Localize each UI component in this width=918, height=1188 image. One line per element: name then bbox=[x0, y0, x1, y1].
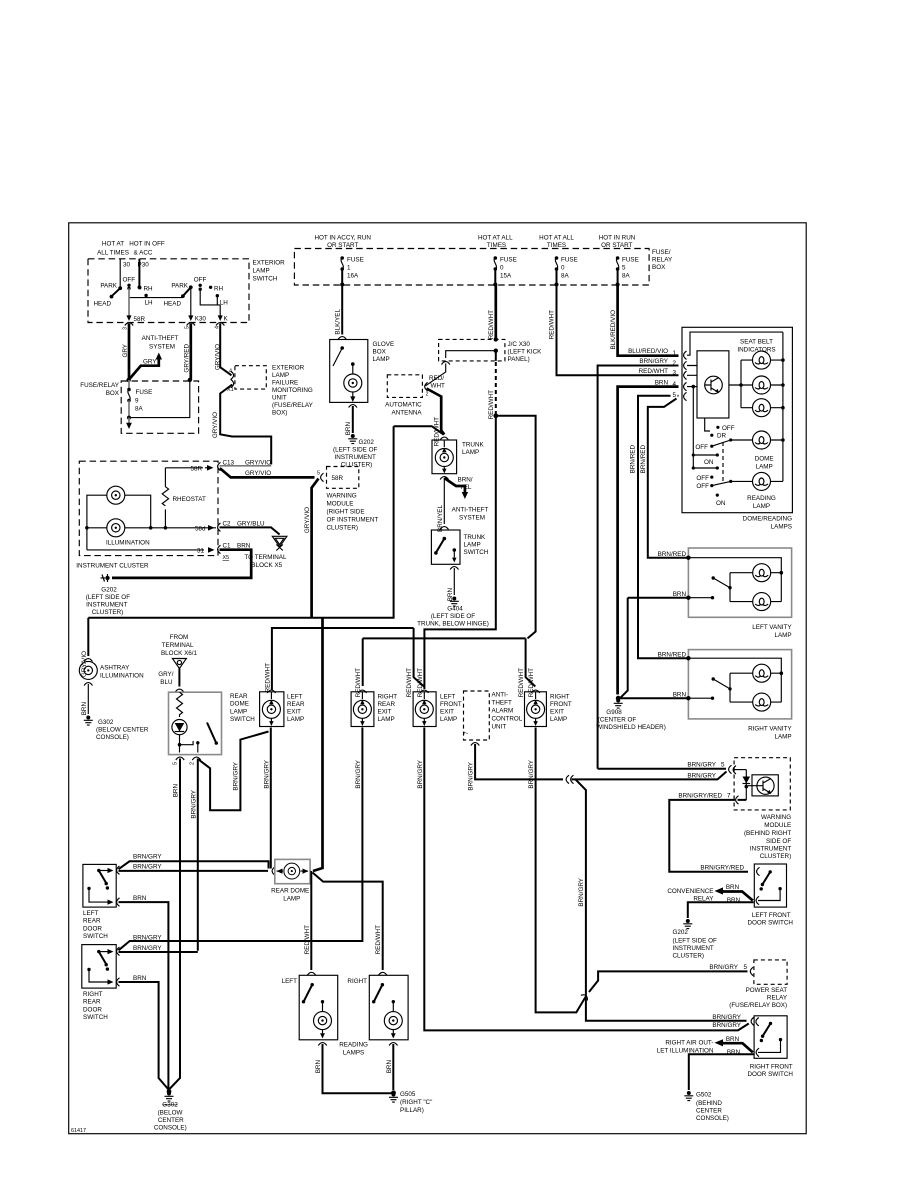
label warning module right side bbox=[327, 493, 379, 532]
svg-text:BRN/RED: BRN/RED bbox=[629, 445, 636, 474]
svg-text:BRN: BRN bbox=[345, 422, 352, 436]
wire BRN/GRY left rear door lower bbox=[119, 864, 269, 871]
svg-text:BRN/GRY: BRN/GRY bbox=[263, 759, 270, 788]
svg-text:1: 1 bbox=[673, 350, 677, 357]
svg-text:BOX: BOX bbox=[106, 390, 120, 397]
wire BRN dome switch to ground bbox=[170, 759, 181, 1090]
ground G908 bbox=[596, 696, 666, 731]
svg-text:RIGHT FRONT: RIGHT FRONT bbox=[750, 1064, 793, 1071]
svg-text:7: 7 bbox=[464, 732, 470, 735]
svg-text:LAMP: LAMP bbox=[756, 464, 773, 471]
svg-text:FUSE/: FUSE/ bbox=[652, 249, 671, 256]
wire BRN glove to ground bbox=[345, 405, 357, 436]
svg-text:BRN/RED: BRN/RED bbox=[640, 445, 647, 474]
svg-text:BLOCK X5: BLOCK X5 bbox=[251, 562, 282, 569]
svg-text:SYSTEM: SYSTEM bbox=[459, 515, 485, 522]
wire RED/WHT pin3 bbox=[549, 285, 679, 377]
svg-text:ON: ON bbox=[716, 500, 726, 507]
wire GRY/VIO C13 upper bbox=[220, 460, 272, 467]
svg-text:GRY/VIO: GRY/VIO bbox=[304, 507, 311, 533]
wire 31 to C1 bbox=[87, 543, 251, 562]
wire BRN/GRY pin2 bbox=[598, 358, 679, 769]
svg-text:RIGHT: RIGHT bbox=[550, 694, 570, 701]
svg-text:0: 0 bbox=[500, 265, 504, 272]
svg-text:OFF: OFF bbox=[696, 475, 709, 482]
wire branch to rear dome feed bbox=[313, 618, 323, 871]
svg-text:BRN: BRN bbox=[133, 975, 147, 982]
svg-text:(LEFT KICK: (LEFT KICK bbox=[508, 349, 543, 356]
svg-text:MODULE: MODULE bbox=[764, 822, 791, 829]
svg-text:FUSE: FUSE bbox=[622, 257, 639, 264]
svg-text:61417: 61417 bbox=[71, 1128, 86, 1134]
wire BRN left reading lamp bbox=[315, 1043, 392, 1094]
svg-text:RED/WHT: RED/WHT bbox=[264, 663, 271, 693]
svg-text:BRN: BRN bbox=[81, 702, 88, 716]
svg-text:ASHTRAY: ASHTRAY bbox=[100, 665, 130, 672]
svg-text:BRN: BRN bbox=[726, 1036, 740, 1043]
svg-text:8A: 8A bbox=[622, 273, 631, 280]
dome lamp L3 bbox=[753, 431, 774, 471]
svg-text:FRONT: FRONT bbox=[550, 701, 572, 708]
control module U1 bbox=[687, 332, 783, 418]
ground G202 cluster bbox=[86, 574, 130, 616]
wire BRN left vanity bbox=[628, 591, 715, 600]
svg-text:(BEHIND RIGHT: (BEHIND RIGHT bbox=[744, 830, 791, 837]
svg-text:UNIT: UNIT bbox=[272, 395, 287, 402]
svg-text:ANTI-THEFT: ANTI-THEFT bbox=[452, 507, 489, 514]
svg-text:BLK/YEL: BLK/YEL bbox=[335, 309, 342, 335]
svg-text:15A: 15A bbox=[500, 273, 512, 280]
svg-text:(RIGHT SIDE: (RIGHT SIDE bbox=[327, 509, 365, 516]
svg-text:REAR: REAR bbox=[378, 701, 396, 708]
svg-text:LEFT VANITY: LEFT VANITY bbox=[752, 624, 792, 631]
svg-text:K30: K30 bbox=[195, 316, 207, 323]
wire BRN right vanity bbox=[620, 691, 714, 700]
svg-text:RED/WHT: RED/WHT bbox=[375, 925, 382, 955]
trunk lamp switch S2 bbox=[431, 530, 460, 564]
wire GRY/VIO ashtray feed bbox=[81, 618, 89, 677]
svg-text:GRY: GRY bbox=[143, 359, 157, 366]
wire BRN/GRY right rear exit down bbox=[131, 728, 362, 942]
label seat belt indicators bbox=[737, 339, 775, 354]
svg-text:RIGHT AIR OUT-: RIGHT AIR OUT- bbox=[665, 1040, 713, 1047]
label rear dome lamp switch bbox=[230, 693, 255, 723]
svg-text:CONSOLE): CONSOLE) bbox=[154, 1125, 187, 1132]
svg-text:RELAY: RELAY bbox=[767, 995, 788, 1002]
connector chevrons at switch box bottom bbox=[125, 323, 225, 326]
fuse F4 8A bbox=[616, 256, 639, 286]
svg-text:2: 2 bbox=[426, 392, 429, 398]
label reading lamps bbox=[339, 1042, 368, 1057]
wire GRY/RED bbox=[184, 324, 191, 381]
wire BRN to convenience relay bbox=[715, 884, 753, 904]
wire feed to trunk lamp from bus bbox=[394, 426, 444, 434]
svg-text:(BEHIND: (BEHIND bbox=[696, 1100, 722, 1107]
svg-text:RED/WHT: RED/WHT bbox=[639, 368, 669, 375]
label rear dome lamp bbox=[271, 888, 309, 903]
svg-text:SIDE OF: SIDE OF bbox=[766, 838, 791, 845]
svg-text:BRN/GRY/RED: BRN/GRY/RED bbox=[700, 864, 744, 871]
svg-text:CONSOLE): CONSOLE) bbox=[696, 1115, 729, 1122]
svg-text:(RIGHT "C": (RIGHT "C" bbox=[400, 1099, 432, 1106]
wire BLK/YEL bbox=[335, 285, 347, 340]
svg-text:CENTER: CENTER bbox=[696, 1108, 722, 1115]
svg-text:REAR: REAR bbox=[83, 918, 101, 925]
svg-text:MODULE: MODULE bbox=[327, 501, 354, 508]
contact OFF dome bbox=[716, 425, 734, 432]
svg-text:WINDSHIELD HEADER): WINDSHIELD HEADER) bbox=[596, 724, 666, 731]
svg-text:LAMP: LAMP bbox=[462, 449, 479, 456]
svg-text:9: 9 bbox=[135, 398, 139, 405]
contact RH right bbox=[209, 286, 224, 293]
svg-text:INSTRUMENT: INSTRUMENT bbox=[335, 454, 376, 461]
svg-text:PILLAR): PILLAR) bbox=[400, 1107, 424, 1114]
svg-text:HOT AT ALL: HOT AT ALL bbox=[478, 235, 513, 242]
svg-text:GRY/VIO: GRY/VIO bbox=[245, 460, 271, 467]
connector C13 bbox=[218, 460, 235, 471]
svg-text:REAR: REAR bbox=[83, 999, 101, 1006]
right rear door switch S7 bbox=[82, 945, 116, 989]
svg-text:SWITCH: SWITCH bbox=[230, 716, 255, 723]
svg-text:DOOR SWITCH: DOOR SWITCH bbox=[747, 1071, 793, 1078]
svg-text:FAILURE: FAILURE bbox=[272, 380, 298, 387]
wire BRN to G202 bbox=[112, 550, 251, 578]
svg-text:5: 5 bbox=[721, 762, 725, 769]
svg-text:BLU/RED/VIO: BLU/RED/VIO bbox=[628, 348, 668, 355]
svg-text:EXTERIOR: EXTERIOR bbox=[253, 260, 286, 267]
illumination lamp 2 bbox=[107, 519, 125, 537]
wire 58d to C2 bbox=[195, 521, 265, 533]
svg-text:7: 7 bbox=[727, 793, 731, 800]
mechanical link dashed bbox=[722, 442, 724, 483]
svg-text:(FUSE/RELAY BOX): (FUSE/RELAY BOX) bbox=[729, 1002, 787, 1009]
wire BRN/GRY to right front door switch upper bbox=[712, 1014, 741, 1029]
svg-text:3: 3 bbox=[673, 370, 677, 377]
svg-text:TERMINAL: TERMINAL bbox=[162, 642, 194, 649]
wire labels RED/WHT verticals bbox=[264, 663, 535, 698]
wire BRN/GRY anti-theft to connector bbox=[468, 744, 564, 791]
wire BRN/GRY left front exit down bbox=[417, 728, 749, 1031]
right front door switch S4 bbox=[751, 1016, 787, 1059]
wire BRN/RED pin5a bbox=[629, 391, 678, 656]
svg-text:LAMP: LAMP bbox=[550, 716, 567, 723]
svg-text:BRN/GRY: BRN/GRY bbox=[190, 789, 197, 818]
svg-text:DOME: DOME bbox=[755, 456, 774, 463]
svg-text:THEFT: THEFT bbox=[492, 700, 512, 707]
wire BLU/RED/VIO pin1 feed bbox=[610, 285, 679, 357]
svg-text:BRN/GRY: BRN/GRY bbox=[233, 761, 240, 790]
wire P30 bbox=[138, 259, 150, 289]
left vanity lamps bbox=[730, 564, 783, 611]
wire BRN/GRY to warning module pin5 bbox=[576, 762, 747, 780]
label right vanity lamp bbox=[748, 726, 792, 741]
ground G202 glove bbox=[333, 434, 377, 469]
seat belt lamp 1 bbox=[753, 351, 771, 369]
svg-text:RIGHT: RIGHT bbox=[83, 991, 103, 998]
svg-text:5: 5 bbox=[173, 762, 179, 765]
ground G302 center console bbox=[154, 1089, 187, 1131]
svg-text:1: 1 bbox=[347, 265, 351, 272]
wire GRY/VIO C13 lower to warning module bbox=[220, 468, 315, 477]
seat belt lamp 2 bbox=[753, 376, 771, 394]
svg-text:RED/WHT: RED/WHT bbox=[304, 925, 311, 955]
svg-text:58d: 58d bbox=[195, 525, 206, 532]
wire BRN left rear door bbox=[117, 895, 169, 1090]
svg-text:(CENTER OF: (CENTER OF bbox=[598, 717, 637, 724]
fuse/relay box left bbox=[121, 381, 198, 433]
svg-text:PANEL): PANEL) bbox=[508, 356, 530, 363]
svg-text:LH: LH bbox=[220, 300, 229, 307]
label fuse/relay box bbox=[80, 382, 120, 397]
diode D1 bbox=[743, 770, 751, 800]
svg-text:RED/: RED/ bbox=[429, 375, 444, 382]
svg-text:BRN/GRY: BRN/GRY bbox=[417, 759, 424, 788]
svg-text:(LEFT SIDE OF: (LEFT SIDE OF bbox=[333, 447, 377, 454]
svg-text:SYSTEM: SYSTEM bbox=[149, 344, 175, 351]
svg-text:ANTI-: ANTI- bbox=[492, 692, 508, 699]
svg-text:BRN: BRN bbox=[673, 591, 687, 598]
svg-text:LAMPS: LAMPS bbox=[343, 1050, 364, 1057]
svg-text:TRUNK, BELOW HINGE): TRUNK, BELOW HINGE) bbox=[417, 621, 489, 628]
svg-text:LAMP: LAMP bbox=[440, 716, 457, 723]
node HOT IN OFF &amp; ACC label bbox=[129, 241, 165, 257]
svg-text:RIGHT: RIGHT bbox=[347, 978, 367, 985]
svg-text:GRY/RED: GRY/RED bbox=[184, 344, 191, 373]
svg-text:G908: G908 bbox=[606, 709, 622, 716]
junction connector J/C X30 bbox=[439, 337, 505, 364]
svg-text:REAR: REAR bbox=[230, 693, 248, 700]
svg-text:BRN/GRY: BRN/GRY bbox=[578, 877, 585, 906]
svg-text:OF INSTRUMENT: OF INSTRUMENT bbox=[327, 517, 379, 524]
svg-text:GRY: GRY bbox=[122, 343, 129, 357]
anti-theft alarm control unit box bbox=[464, 691, 490, 746]
wire bus RED/WHT horizontal B bbox=[424, 417, 495, 689]
wire BRN/GRY right front exit down bbox=[528, 728, 748, 1013]
node HOT AT ALL TIMES label bbox=[97, 241, 129, 257]
reading switch contacts bbox=[696, 475, 752, 507]
left vanity switch bbox=[712, 576, 732, 589]
svg-text:TRUNK: TRUNK bbox=[464, 534, 486, 541]
warning module 58R box bbox=[317, 467, 359, 489]
rear dome lamp switch S5 bbox=[169, 692, 222, 754]
dome/reading lamps unit box bbox=[682, 327, 792, 512]
svg-text:BRN/GRY: BRN/GRY bbox=[528, 759, 535, 788]
wire BRN right rear door bbox=[117, 975, 169, 1090]
switch arm PARK/HEAD left bbox=[94, 283, 123, 308]
svg-text:BRN: BRN bbox=[726, 884, 740, 891]
wire GRY/VIO warning module to bus bbox=[304, 479, 319, 618]
wire GRY/VIO from X1 down to C13 bbox=[212, 385, 271, 465]
svg-text:REAR DOME: REAR DOME bbox=[271, 888, 309, 895]
svg-text:SWITCH: SWITCH bbox=[253, 276, 278, 283]
transistor Q1 bbox=[705, 376, 723, 394]
contact DR dome bbox=[710, 433, 726, 440]
svg-text:LEFT: LEFT bbox=[282, 978, 298, 985]
switch arm PARK/HEAD right bbox=[164, 283, 193, 308]
svg-text:CLUSTER): CLUSTER) bbox=[673, 953, 705, 960]
illumination lamp 1 bbox=[107, 486, 125, 504]
svg-text:G502: G502 bbox=[696, 1092, 712, 1099]
svg-text:INSTRUMENT: INSTRUMENT bbox=[750, 846, 791, 853]
pin X1 monitor unit bbox=[227, 379, 234, 393]
label right air outlet illumination bbox=[657, 1040, 714, 1055]
svg-text:BRN: BRN bbox=[673, 691, 687, 698]
svg-text:BRN/GRY: BRN/GRY bbox=[712, 1014, 741, 1021]
svg-text:LAMP: LAMP bbox=[253, 268, 270, 275]
svg-text:J/C X30: J/C X30 bbox=[508, 341, 531, 348]
label left front door switch bbox=[747, 912, 793, 927]
svg-text:WHT: WHT bbox=[431, 383, 445, 390]
wire 58R to C13 bbox=[165, 465, 213, 472]
contact LH left bbox=[144, 294, 153, 307]
svg-text:8A: 8A bbox=[135, 406, 144, 413]
svg-text:RED/WHT: RED/WHT bbox=[406, 668, 413, 698]
transistor Q2 bbox=[748, 777, 774, 794]
svg-text:G202: G202 bbox=[673, 929, 689, 936]
svg-text:BRN/GRY: BRN/GRY bbox=[687, 762, 716, 769]
svg-text:ILLUMINATION: ILLUMINATION bbox=[106, 540, 150, 547]
svg-text:G302: G302 bbox=[162, 1102, 178, 1109]
contact OFF right bbox=[194, 277, 207, 291]
label anti-theft system bbox=[452, 507, 489, 522]
svg-text:ON: ON bbox=[704, 459, 714, 466]
svg-text:BRN: BRN bbox=[655, 379, 669, 386]
wire BRN/GRY left rear exit down bbox=[263, 728, 271, 869]
svg-text:8A: 8A bbox=[561, 273, 570, 280]
svg-text:MONITORING: MONITORING bbox=[272, 387, 313, 394]
svg-text:ALL TIMES: ALL TIMES bbox=[97, 250, 129, 257]
fuse/relay box strip bbox=[294, 249, 649, 286]
svg-text:LEFT: LEFT bbox=[83, 910, 99, 917]
svg-text:RIGHT: RIGHT bbox=[378, 694, 398, 701]
svg-text:BLOCK X6/1: BLOCK X6/1 bbox=[161, 650, 198, 657]
label right front door switch bbox=[747, 1064, 793, 1079]
wire BRN to right air outlet illumination bbox=[715, 1036, 753, 1056]
svg-text:DOOR SWITCH: DOOR SWITCH bbox=[747, 920, 793, 927]
wire bus RED/WHT horizontal A bbox=[272, 628, 414, 690]
svg-text:INSTRUMENT: INSTRUMENT bbox=[673, 945, 714, 952]
svg-text:LAMP: LAMP bbox=[272, 372, 289, 379]
svg-text:HEAD: HEAD bbox=[94, 301, 112, 308]
power seat relay box bbox=[709, 960, 787, 984]
svg-text:OFF: OFF bbox=[695, 444, 708, 451]
ground G202 right bbox=[673, 919, 717, 960]
svg-text:(LEFT SIDE OF: (LEFT SIDE OF bbox=[86, 594, 130, 601]
svg-text:FUSE: FUSE bbox=[561, 257, 578, 264]
rear dome lamp L9 bbox=[272, 859, 310, 883]
svg-text:PARK: PARK bbox=[171, 283, 188, 290]
fuse F2 15A bbox=[493, 256, 516, 286]
svg-text:FUSE: FUSE bbox=[500, 257, 517, 264]
svg-text:LAMP: LAMP bbox=[287, 716, 304, 723]
wire BRN to G202 bbox=[688, 902, 754, 918]
contact LH right bbox=[216, 294, 229, 307]
pin 4 monitor unit bbox=[229, 369, 234, 380]
right vanity lamps bbox=[730, 664, 783, 711]
node HOT IN RUN OR START label bbox=[599, 235, 636, 250]
border frame bbox=[69, 223, 807, 1134]
seat belt lamp 3 bbox=[753, 399, 771, 417]
wire GRY/RED inside fuse box bbox=[131, 380, 190, 418]
svg-text:G404: G404 bbox=[447, 606, 463, 613]
wire BRN/GRY right rear door lower bbox=[119, 945, 198, 952]
svg-text:4: 4 bbox=[229, 369, 232, 375]
svg-text:GLOVE: GLOVE bbox=[373, 341, 395, 348]
svg-text:BRN/GRY/RED: BRN/GRY/RED bbox=[678, 793, 722, 800]
svg-text:(LEFT SIDE OF: (LEFT SIDE OF bbox=[431, 613, 475, 620]
wire BRN/RED right vanity bbox=[638, 651, 781, 702]
svg-text:BRN: BRN bbox=[133, 895, 147, 902]
left vanity lamp box bbox=[688, 548, 791, 617]
svg-text:FROM: FROM bbox=[170, 634, 189, 641]
svg-text:DOOR: DOOR bbox=[83, 1006, 102, 1013]
wire 58R bbox=[126, 288, 145, 323]
label right front exit lamp bbox=[550, 694, 572, 724]
wire GRY bbox=[122, 324, 129, 381]
wire 30 bbox=[120, 259, 130, 288]
wire BRN/GRY left rear exit to dome switch pin2 bbox=[199, 732, 269, 811]
svg-text:GRY/: GRY/ bbox=[158, 671, 174, 678]
svg-text:2: 2 bbox=[673, 360, 677, 367]
svg-text:WARNING: WARNING bbox=[761, 814, 791, 821]
wire BRN/RED pin5b bbox=[640, 399, 677, 555]
svg-text:READING: READING bbox=[747, 495, 776, 502]
svg-text:TRUNK: TRUNK bbox=[462, 442, 484, 449]
svg-text:LAMP: LAMP bbox=[464, 542, 481, 549]
svg-text:EXIT: EXIT bbox=[440, 709, 454, 716]
wire BRN ashtray bbox=[81, 684, 89, 715]
svg-text:SWITCH: SWITCH bbox=[83, 933, 108, 940]
svg-text:RED/WHT: RED/WHT bbox=[549, 310, 556, 340]
svg-text:HOT IN ACCY, RUN: HOT IN ACCY, RUN bbox=[314, 235, 371, 242]
fuse F3 8A bbox=[555, 256, 578, 286]
svg-text:LH: LH bbox=[145, 300, 154, 307]
svg-text:INSTRUMENT: INSTRUMENT bbox=[86, 602, 127, 609]
svg-text:58R: 58R bbox=[190, 465, 202, 472]
exterior lamp failure monitoring unit box bbox=[235, 366, 266, 389]
svg-text:SEAT BELT: SEAT BELT bbox=[740, 339, 773, 346]
svg-text:4: 4 bbox=[673, 381, 677, 388]
svg-text:SWITCH: SWITCH bbox=[83, 1014, 108, 1021]
svg-text:& ACC: & ACC bbox=[134, 250, 153, 257]
wire RED/WHT to antenna bbox=[426, 364, 446, 390]
reading lamp L4 bbox=[747, 472, 776, 510]
svg-text:DOME: DOME bbox=[230, 701, 249, 708]
wire BRN vanity return bbox=[620, 598, 628, 699]
svg-text:CONVENIENCE: CONVENIENCE bbox=[667, 888, 713, 895]
svg-text:YEL: YEL bbox=[460, 484, 472, 491]
wire RED/WHT dashed from J/C bbox=[488, 362, 498, 419]
wire bus GRY/VIO horizontal bbox=[88, 426, 393, 618]
node HOT AT ALL TIMES label 2 bbox=[478, 235, 513, 250]
svg-text:LEFT: LEFT bbox=[287, 694, 303, 701]
label left rear exit lamp bbox=[287, 694, 305, 724]
wire GRY/BLU to dome switch bbox=[158, 669, 183, 693]
svg-text:CLUSTER): CLUSTER) bbox=[760, 853, 792, 860]
contact OFF left bbox=[123, 277, 136, 291]
rheostat R1 bbox=[162, 468, 206, 528]
svg-text:0: 0 bbox=[561, 265, 565, 272]
right vanity lamp box bbox=[688, 650, 791, 719]
svg-text:DOOR: DOOR bbox=[83, 925, 102, 932]
svg-text:G302: G302 bbox=[98, 719, 114, 726]
label convenience relay bbox=[667, 888, 714, 903]
svg-text:EXIT: EXIT bbox=[378, 709, 392, 716]
svg-text:BLU: BLU bbox=[160, 679, 173, 686]
svg-text:BRN/GRY: BRN/GRY bbox=[133, 854, 162, 861]
svg-text:CONSOLE): CONSOLE) bbox=[96, 734, 129, 741]
svg-text:CLUSTER): CLUSTER) bbox=[341, 462, 373, 469]
